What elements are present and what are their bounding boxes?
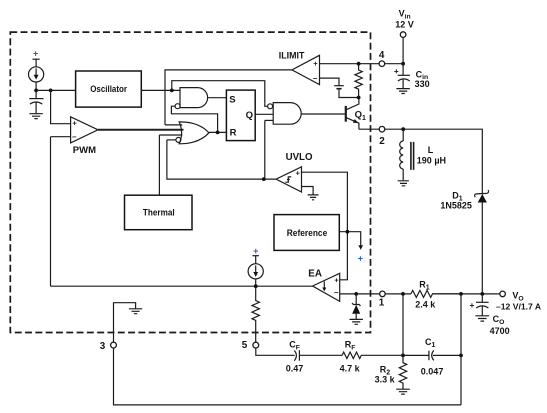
svg-text:2.4 k: 2.4 k <box>415 300 436 310</box>
svg-text:3.3 k: 3.3 k <box>375 374 396 384</box>
svg-text:Thermal: Thermal <box>143 208 175 218</box>
svg-text:Q: Q <box>246 110 253 121</box>
svg-text:Reference: Reference <box>287 228 328 238</box>
svg-text:+: + <box>469 300 474 310</box>
svg-text:EA: EA <box>308 268 322 279</box>
svg-text:0.047: 0.047 <box>421 367 444 377</box>
svg-text:3: 3 <box>100 341 106 352</box>
svg-text:4700: 4700 <box>490 326 510 336</box>
svg-text:2: 2 <box>379 136 385 147</box>
svg-text:4: 4 <box>379 50 385 61</box>
svg-text:+: + <box>253 246 258 256</box>
svg-text:+: + <box>358 254 363 264</box>
svg-text:0.47: 0.47 <box>286 364 304 374</box>
svg-text:+: + <box>394 66 399 76</box>
svg-text:190 µH: 190 µH <box>417 156 446 166</box>
svg-text:4.7 k: 4.7 k <box>340 364 361 374</box>
svg-text:S: S <box>229 94 235 105</box>
svg-text:−: − <box>334 288 339 297</box>
svg-text:+: + <box>313 59 318 68</box>
svg-text:–12 V/1.7 A: –12 V/1.7 A <box>496 301 541 311</box>
svg-text:330: 330 <box>415 79 430 89</box>
svg-text:1N5825: 1N5825 <box>440 201 472 211</box>
svg-text:+: + <box>334 275 339 284</box>
svg-text:PWM: PWM <box>73 145 96 156</box>
svg-text:Oscillator: Oscillator <box>90 84 127 94</box>
svg-text:−: − <box>313 74 318 83</box>
svg-text:UVLO: UVLO <box>286 152 313 163</box>
svg-text:5: 5 <box>242 340 248 351</box>
svg-text:L: L <box>428 145 434 155</box>
svg-text:+: + <box>295 168 300 177</box>
svg-text:ILIMIT: ILIMIT <box>279 49 305 60</box>
svg-text:12 V: 12 V <box>395 20 414 30</box>
svg-text:1: 1 <box>379 297 385 308</box>
svg-text:−: − <box>72 132 77 141</box>
svg-text:+: + <box>72 119 77 128</box>
svg-text:R: R <box>230 128 237 139</box>
svg-text:+: + <box>33 49 38 59</box>
